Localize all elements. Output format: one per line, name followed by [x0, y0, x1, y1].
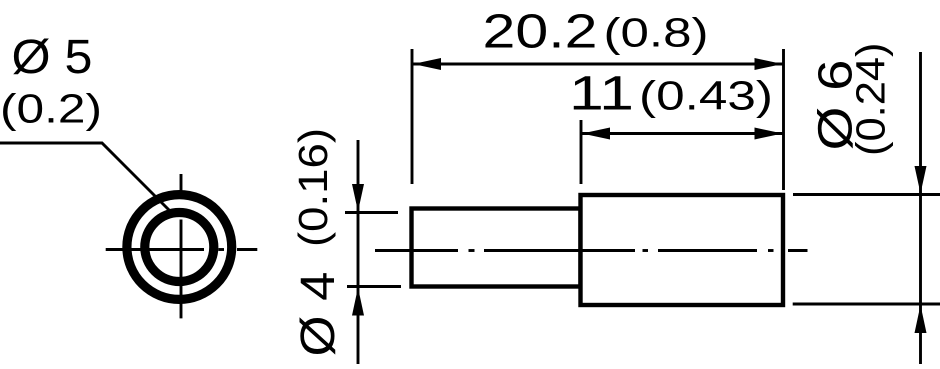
dimension Ø6 line [919, 52, 922, 364]
front view outer circle Ø5 [127, 195, 232, 300]
dimension Ø4 bottom arrowhead [352, 288, 364, 316]
dimension 20.2 left arrowhead [413, 58, 441, 70]
dimension Ø4 line [357, 140, 360, 364]
dimension 11 left arrowhead [582, 128, 610, 140]
dimension 11 right arrowhead [755, 128, 783, 140]
side view small cylinder Ø4 [412, 209, 581, 287]
svg-text:(0.43): (0.43) [639, 73, 773, 119]
svg-text:(0.2): (0.2) [0, 86, 102, 132]
dimension 11 line [581, 132, 784, 135]
dimension 20.2 extension line left [411, 49, 414, 184]
side view large cylinder Ø6 [581, 195, 784, 305]
dimension Ø6 extension line top [793, 193, 940, 196]
dimension Ø6 top arrowhead [915, 166, 927, 194]
side view centerline (dash-dot) [375, 249, 808, 252]
dimension 20.2/11 extension line right [782, 49, 785, 190]
front view inner circle Ø4 [145, 213, 214, 282]
svg-text:(0.24): (0.24) [848, 43, 894, 157]
svg-text:11: 11 [569, 68, 634, 121]
dimension Ø6 bottom arrowhead [915, 305, 927, 333]
leader line to front view [0, 143, 175, 216]
svg-text:(0.8): (0.8) [604, 10, 709, 56]
dimension 20.2 right arrowhead [755, 58, 783, 70]
front view horizontal centerline [106, 248, 258, 251]
dimension 20.2 line [412, 63, 784, 66]
dimension Ø4 extension tick top [345, 211, 398, 214]
dimension Ø4 top arrowhead [352, 184, 364, 212]
svg-text:20.2: 20.2 [483, 6, 598, 59]
svg-text:Ø 4: Ø 4 [292, 272, 345, 357]
svg-text:Ø 5: Ø 5 [12, 31, 93, 84]
svg-text:(0.16): (0.16) [290, 128, 336, 247]
dimension Ø4 extension tick bottom [347, 285, 401, 288]
dimension 11 extension line left [580, 120, 583, 184]
dimension Ø6 extension line bottom [793, 303, 940, 306]
front view vertical centerline [180, 174, 183, 318]
